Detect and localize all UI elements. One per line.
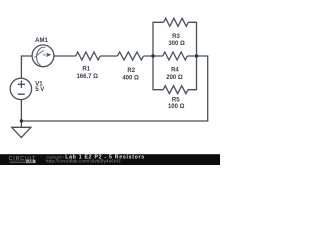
caption bar <box>0 154 220 165</box>
svg-text:R5: R5 <box>172 97 180 103</box>
ammeter AM1 <box>32 45 54 67</box>
svg-text:R2: R2 <box>127 68 135 74</box>
wire R5 branch right <box>188 56 197 90</box>
wire ammeter to R1 <box>54 55 76 57</box>
node B junction dot <box>195 54 198 57</box>
svg-text:200 Ω: 200 Ω <box>166 75 183 81</box>
svg-text:100 Ω: 100 Ω <box>168 104 185 110</box>
wire V1 top to ammeter <box>21 56 32 78</box>
svg-text:http://circuitlab.com/c6vb5fy4: http://circuitlab.com/c6vb5fy4e6t43 <box>46 158 121 163</box>
wire R3 branch right <box>188 22 196 56</box>
ground node junction dot <box>20 119 23 122</box>
svg-text:166.7 Ω: 166.7 Ω <box>76 74 98 80</box>
wire R2 to node A <box>144 55 163 57</box>
svg-text:LAB: LAB <box>27 160 34 164</box>
voltage source V1 <box>10 78 31 99</box>
wire ground stub <box>20 121 22 127</box>
wire R1 to R2 <box>100 55 117 57</box>
resistor R3 <box>164 18 189 26</box>
wire R3 branch left <box>153 22 164 56</box>
wire R4 to node B and return to ground <box>21 56 207 121</box>
resistor R1 <box>76 52 100 60</box>
svg-text:AM1: AM1 <box>35 38 48 44</box>
wire R5 branch left <box>153 56 163 90</box>
CircuitLab logo <box>9 156 36 163</box>
svg-text:400 Ω: 400 Ω <box>122 76 139 82</box>
resistor R4 <box>163 52 187 60</box>
ground <box>12 127 31 137</box>
svg-text:R1: R1 <box>82 67 90 73</box>
svg-text:300 Ω: 300 Ω <box>168 41 185 47</box>
svg-text:R3: R3 <box>172 34 180 40</box>
node A junction dot <box>151 54 154 57</box>
resistor R2 <box>118 52 144 60</box>
svg-text:5 V: 5 V <box>35 87 44 93</box>
resistor R5 <box>163 86 188 94</box>
svg-text:R4: R4 <box>171 68 179 74</box>
